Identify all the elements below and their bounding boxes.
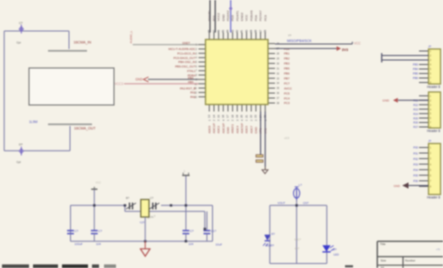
svg-text:16CMA_OUT: 16CMA_OUT bbox=[74, 126, 96, 130]
svg-text:10uF: 10uF bbox=[216, 243, 223, 247]
svg-text:P30: P30 bbox=[413, 146, 418, 150]
svg-text:P35: P35 bbox=[413, 173, 418, 177]
svg-text:GND: GND bbox=[254, 127, 258, 133]
svg-text:45: 45 bbox=[221, 29, 225, 32]
svg-text:PC6: PC6 bbox=[263, 15, 267, 21]
svg-text:18: 18 bbox=[230, 114, 234, 117]
svg-text:Y?: Y? bbox=[288, 34, 292, 38]
svg-text:MISO/PB4/SCK: MISO/PB4/SCK bbox=[287, 39, 312, 43]
svg-text:PB6: PB6 bbox=[413, 76, 419, 80]
svg-text:39: 39 bbox=[249, 29, 253, 32]
svg-text:P26: P26 bbox=[413, 121, 418, 125]
svg-text:22: 22 bbox=[249, 114, 253, 117]
svg-text:PB5: PB5 bbox=[413, 72, 419, 76]
svg-text:PB1: PB1 bbox=[284, 52, 290, 56]
svg-text:P36: P36 bbox=[413, 179, 418, 183]
svg-text:PB2: PB2 bbox=[284, 57, 290, 61]
svg-text:ADC1/P: ADC1/P bbox=[212, 123, 216, 134]
svg-text:D?: D? bbox=[333, 248, 337, 252]
svg-text:38: 38 bbox=[254, 29, 258, 32]
svg-text:LED: LED bbox=[334, 253, 339, 257]
svg-text:ADC5/P: ADC5/P bbox=[240, 123, 244, 134]
svg-text:104: 104 bbox=[96, 242, 101, 246]
svg-text:PB7: PB7 bbox=[284, 76, 290, 80]
svg-text:VCC3: VCC3 bbox=[114, 82, 123, 86]
svg-text:P33: P33 bbox=[413, 162, 418, 166]
svg-text:AVCC: AVCC bbox=[284, 86, 292, 90]
svg-text:PC7: PC7 bbox=[284, 81, 290, 85]
svg-text:D?: D? bbox=[19, 143, 23, 147]
svg-text:Header 8: Header 8 bbox=[427, 196, 440, 200]
svg-text:C?: C? bbox=[150, 196, 154, 200]
svg-text:PC4: PC4 bbox=[284, 96, 290, 100]
svg-text:ADC3/P: ADC3/P bbox=[221, 123, 225, 134]
svg-text:C?: C? bbox=[75, 229, 79, 233]
svg-text:VCC: VCC bbox=[354, 41, 361, 45]
svg-text:MIC?: MIC? bbox=[295, 238, 302, 242]
svg-text:1L9M: 1L9M bbox=[29, 120, 38, 124]
svg-text:46: 46 bbox=[216, 29, 220, 32]
svg-text:4R7: 4R7 bbox=[295, 247, 300, 251]
svg-text:Size: Size bbox=[381, 259, 387, 263]
svg-text:16: 16 bbox=[221, 114, 225, 117]
svg-text:100uF: 100uF bbox=[75, 242, 83, 246]
svg-text:PB6: PB6 bbox=[284, 72, 290, 76]
svg-text:AUDIO_L: AUDIO_L bbox=[129, 30, 133, 43]
svg-text:Header 8: Header 8 bbox=[427, 129, 440, 133]
svg-text:GND: GND bbox=[226, 127, 230, 133]
svg-text:PB4: PB4 bbox=[413, 67, 419, 71]
svg-text:C?: C? bbox=[98, 229, 102, 233]
svg-text:C?: C? bbox=[190, 229, 194, 233]
svg-text:21: 21 bbox=[244, 114, 248, 117]
svg-text:400R?: 400R? bbox=[266, 244, 275, 248]
svg-text:CN?: CN? bbox=[303, 201, 309, 205]
svg-text:VOUT: VOUT bbox=[278, 201, 286, 205]
svg-text:40: 40 bbox=[244, 29, 248, 32]
svg-text:17: 17 bbox=[226, 114, 230, 117]
svg-text:VCC: VCC bbox=[245, 14, 249, 21]
svg-text:VCC: VCC bbox=[96, 181, 102, 185]
svg-text:GND: GND bbox=[394, 184, 400, 188]
svg-text:AREF2: AREF2 bbox=[231, 124, 235, 134]
svg-text:+3.3: +3.3 bbox=[284, 136, 290, 140]
svg-text:13: 13 bbox=[207, 114, 211, 117]
svg-text:ADC0: ADC0 bbox=[207, 125, 211, 133]
svg-text:14: 14 bbox=[212, 114, 216, 117]
svg-text:P34: P34 bbox=[413, 168, 418, 172]
svg-text:Cpr: Cpr bbox=[17, 41, 22, 45]
svg-text:R?: R? bbox=[272, 232, 276, 236]
svg-text:C?: C? bbox=[19, 21, 23, 25]
svg-text:Number: Number bbox=[405, 259, 415, 263]
svg-text:PC3: PC3 bbox=[284, 101, 290, 105]
svg-text:L?: L? bbox=[299, 183, 303, 187]
svg-text:15: 15 bbox=[216, 114, 220, 117]
svg-text:ADC7: ADC7 bbox=[249, 125, 253, 133]
svg-text:PD6: PD6 bbox=[254, 15, 258, 21]
svg-text:PD4/T1: PD4/T1 bbox=[235, 10, 239, 21]
svg-text:19: 19 bbox=[235, 114, 239, 117]
svg-text:PD5/A5: PD5/A5 bbox=[249, 10, 253, 21]
svg-text:44: 44 bbox=[226, 29, 230, 32]
svg-text:PC5: PC5 bbox=[284, 91, 290, 95]
svg-text:104: 104 bbox=[189, 242, 194, 246]
svg-text:P22: P22 bbox=[413, 103, 418, 107]
svg-text:ADC6: ADC6 bbox=[245, 125, 249, 133]
svg-text:J?: J? bbox=[428, 139, 432, 143]
svg-text:20: 20 bbox=[240, 114, 244, 117]
svg-text:P31: P31 bbox=[413, 151, 418, 155]
svg-text:P25: P25 bbox=[413, 116, 418, 120]
svg-text:P23: P23 bbox=[413, 107, 418, 111]
svg-text:GND: GND bbox=[221, 13, 225, 21]
svg-text:37: 37 bbox=[258, 29, 262, 32]
svg-text:P32: P32 bbox=[413, 157, 418, 161]
svg-text:41: 41 bbox=[240, 29, 244, 32]
svg-text:GND: GND bbox=[135, 78, 143, 82]
svg-text:Cpl: Cpl bbox=[17, 160, 22, 164]
svg-text:PD7/A7: PD7/A7 bbox=[259, 10, 263, 21]
svg-text:ADC2: ADC2 bbox=[217, 125, 221, 133]
svg-text:P27: P27 bbox=[413, 125, 418, 129]
svg-text:VCC2: VCC2 bbox=[217, 13, 221, 22]
svg-text:ADC4: ADC4 bbox=[235, 125, 239, 133]
svg-text:PB3: PB3 bbox=[413, 63, 419, 67]
svg-text:16CMA_IN: 16CMA_IN bbox=[74, 41, 92, 45]
svg-text:GND: GND bbox=[382, 99, 390, 103]
svg-text:B?: B? bbox=[126, 196, 130, 200]
svg-text:C1?: C1? bbox=[211, 229, 217, 233]
svg-text:J?: J? bbox=[428, 44, 432, 48]
svg-text:Header 8: Header 8 bbox=[427, 85, 440, 89]
svg-text:Y2?: Y2? bbox=[140, 221, 145, 225]
svg-text:42: 42 bbox=[235, 29, 239, 32]
svg-text:GND2: GND2 bbox=[240, 12, 244, 21]
svg-text:PA0: PA0 bbox=[190, 95, 196, 99]
svg-text:<Ti: <Ti bbox=[436, 248, 441, 252]
svg-text:23: 23 bbox=[254, 114, 258, 117]
svg-text:PD2/A2: PD2/A2 bbox=[226, 10, 230, 21]
svg-text:3V3: 3V3 bbox=[342, 48, 348, 52]
svg-text:P24: P24 bbox=[413, 112, 418, 116]
svg-text:Title: Title bbox=[380, 242, 386, 246]
svg-text:36: 36 bbox=[263, 29, 267, 32]
svg-text:PD3: PD3 bbox=[231, 15, 235, 21]
svg-text:PB3: PB3 bbox=[284, 62, 290, 66]
svg-text:PB5: PB5 bbox=[284, 67, 290, 71]
